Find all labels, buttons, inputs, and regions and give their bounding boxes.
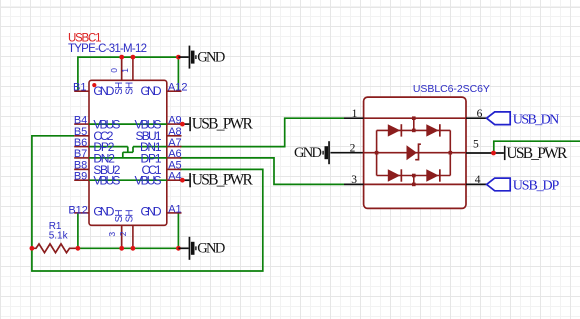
pin designators left column <box>68 81 88 216</box>
IC U1 USBLC6-2SC6Y box <box>364 97 466 208</box>
wire DP DN crossover <box>89 147 167 158</box>
svg-text:USB_DN: USB_DN <box>513 112 560 127</box>
power port GND top <box>178 46 225 69</box>
connector USBC1 shield pins top <box>122 57 133 80</box>
connector USBC1 left pins B1 B4 B5 B6 B7 B8 B9 B12 <box>74 91 89 213</box>
IC internal row lines <box>364 118 466 184</box>
designator USBC1 <box>68 32 102 44</box>
wire A12 to GND net vertical <box>177 57 179 91</box>
svg-text:B1: B1 <box>73 81 86 93</box>
net port USB_PWR at pin5 <box>504 145 568 162</box>
svg-text:VBUS: VBUS <box>135 174 162 188</box>
junction dot A4 <box>180 178 185 183</box>
svg-text:GND: GND <box>294 145 322 161</box>
svg-text:USB_PWR: USB_PWR <box>192 115 254 132</box>
designator R1 <box>49 221 62 232</box>
diode D1 top left <box>388 124 402 136</box>
svg-text:SH: SH <box>125 209 136 222</box>
pin names right column <box>135 84 162 219</box>
net port USB_PWR at A4 <box>180 172 254 189</box>
svg-text:3: 3 <box>351 174 357 186</box>
junction dot R1 right GND net <box>76 246 81 251</box>
svg-text:GND: GND <box>197 241 225 257</box>
pin number 3 <box>351 174 357 186</box>
svg-text:A12: A12 <box>168 81 188 93</box>
IC junction squares <box>375 116 452 186</box>
svg-text:TYPE-C-31-M-12: TYPE-C-31-M-12 <box>68 43 147 55</box>
svg-text:SH: SH <box>125 82 136 95</box>
pin number 2 <box>350 142 356 154</box>
svg-text:GND: GND <box>141 84 162 98</box>
svg-text:GND: GND <box>93 84 114 98</box>
svg-text:5.1k: 5.1k <box>49 230 69 241</box>
pin number 1 <box>352 108 358 120</box>
wire GND top net from B1 to GND <box>78 57 178 91</box>
power port GND bottom <box>178 237 225 260</box>
power port GND at USBLC6 pin2 <box>294 141 364 164</box>
svg-text:3: 3 <box>107 232 117 237</box>
svg-text:GND: GND <box>141 204 162 218</box>
svg-text:B9: B9 <box>74 170 87 182</box>
pin number 5 <box>473 138 479 150</box>
value TYPE-C-31-M-12 <box>68 43 147 55</box>
wire A1 to GND rail <box>177 213 179 248</box>
svg-text:A7: A7 <box>168 137 181 149</box>
wire DN1 A7 to USBLC6 pin1 <box>180 118 344 146</box>
IC pin 5 stub and wire <box>466 152 504 154</box>
svg-text:B7: B7 <box>74 148 87 160</box>
svg-text:B4: B4 <box>74 114 87 126</box>
net flag USB_DP <box>487 178 560 194</box>
connector USBC1 right pins A12 A9 A8 A7 A6 A5 A4 A1 <box>167 91 182 213</box>
zener diode D5 center <box>407 144 421 160</box>
pin designators right column <box>168 81 188 215</box>
svg-text:SH: SH <box>114 82 125 95</box>
value 5.1k <box>49 230 69 241</box>
svg-text:GND: GND <box>93 204 114 218</box>
svg-text:A9: A9 <box>168 114 181 126</box>
resistor R1 <box>32 244 78 253</box>
pin number 4 <box>475 174 481 186</box>
IC pin 4 stub <box>466 183 487 185</box>
wire USB_PWR from pin5 to top right <box>494 141 580 153</box>
shield pin numbers 3 2 bottom rotated <box>107 231 128 236</box>
wire CC loop CC2-R1-CC1 <box>32 136 263 271</box>
svg-text:B6: B6 <box>74 137 87 149</box>
svg-text:B12: B12 <box>68 204 88 216</box>
pin number 6 <box>477 108 483 120</box>
IC pin 1 stub <box>344 117 364 119</box>
value USBLC6-2SC6Y <box>413 83 490 95</box>
svg-text:A4: A4 <box>168 170 181 182</box>
svg-text:USB_PWR: USB_PWR <box>192 172 254 189</box>
connector USBC1 box <box>89 80 167 225</box>
wire DP1 A6 to USBLC6 pin3 <box>180 158 344 185</box>
shield pin numbers 0 1 top rotated <box>109 68 130 73</box>
junction dot A9 <box>180 122 185 127</box>
diode D4 bottom right <box>426 169 440 181</box>
svg-text:GND: GND <box>197 50 225 66</box>
svg-text:USB_PWR: USB_PWR <box>506 145 568 162</box>
svg-text:5: 5 <box>473 138 479 150</box>
svg-text:VBUS: VBUS <box>93 174 120 188</box>
svg-text:USB_DP: USB_DP <box>513 179 560 194</box>
net flag USB_DN <box>487 112 560 128</box>
svg-text:A1: A1 <box>168 204 181 216</box>
wire B12 to GND rail <box>77 213 79 248</box>
net port USB_PWR at A9 <box>180 115 254 132</box>
diode D2 top right <box>426 124 440 136</box>
junction dot pin5 <box>491 151 496 156</box>
junction dots bottom GND rail <box>119 246 181 251</box>
pin names left column <box>93 84 120 219</box>
svg-text:A6: A6 <box>168 148 181 160</box>
svg-text:1: 1 <box>120 68 130 73</box>
junction dots top GND wire <box>119 55 181 60</box>
IC internal rails and branches <box>377 118 451 184</box>
wire VBUS internal top row <box>89 123 167 125</box>
diode D3 bottom left <box>388 169 402 181</box>
IC pin 3 stub <box>344 183 364 185</box>
svg-text:SH: SH <box>114 209 125 222</box>
connector USBC1 shield pins bottom <box>122 225 133 248</box>
svg-text:6: 6 <box>477 108 483 120</box>
svg-text:2: 2 <box>350 142 356 154</box>
svg-text:4: 4 <box>475 174 481 186</box>
svg-text:2: 2 <box>118 231 128 236</box>
IC pin 6 stub <box>466 117 487 119</box>
svg-text:USBLC6-2SC6Y: USBLC6-2SC6Y <box>413 83 490 95</box>
svg-text:1: 1 <box>352 108 358 120</box>
svg-text:0: 0 <box>109 68 119 73</box>
wire VBUS internal bottom row <box>89 179 167 181</box>
junction dot R1 left CC net <box>30 246 35 251</box>
pin names SH shield rotated <box>114 82 136 223</box>
wire GND rail bottom <box>78 247 178 249</box>
